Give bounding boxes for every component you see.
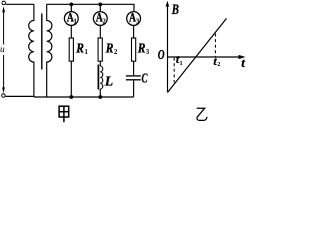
svg-text:2: 2 (102, 18, 106, 26)
wire capacitor to bottom bus (133, 80, 135, 97)
wire R2 to inductor (99, 62, 101, 66)
ammeter A1 (64, 4, 78, 25)
label jia (circuit) (59, 106, 69, 122)
resistor R1 (69, 38, 73, 61)
svg-text:3: 3 (136, 18, 140, 26)
svg-text:B: B (171, 2, 179, 18)
svg-text:1: 1 (85, 49, 89, 56)
dashed line t2 (214, 34, 216, 57)
B-t line (168, 18, 227, 92)
junction node bottom L (98, 95, 102, 99)
svg-text:1: 1 (73, 18, 77, 26)
wire A2 to R2 (99, 26, 101, 38)
svg-text:R: R (75, 40, 84, 55)
label yi (graph) (197, 108, 207, 120)
wire bottom from terminal to primary coil (6, 95, 34, 98)
wire A3 to R3 (133, 26, 135, 38)
wire top from terminal to primary coil (6, 3, 34, 5)
transformer secondary coil (47, 4, 52, 97)
inductor L coil (100, 66, 103, 89)
svg-text:C: C (142, 71, 149, 86)
bottom bus wire (34, 96, 134, 98)
ammeter A2 (93, 4, 107, 25)
wire R1 to bottom bus (70, 62, 72, 97)
terminal bottom-left (2, 94, 6, 98)
ammeter A3 (127, 10, 141, 26)
junction node bottom R1 (69, 95, 73, 99)
terminal top-left (2, 1, 5, 5)
B axis (167, 4, 169, 93)
svg-text:1: 1 (180, 60, 183, 67)
svg-text:3: 3 (146, 49, 150, 56)
svg-text:t: t (241, 55, 245, 70)
svg-text:R: R (105, 40, 114, 55)
AC source u double arrow (3, 12, 5, 90)
t axis (168, 56, 243, 58)
svg-text:O: O (158, 48, 165, 63)
junction node top A1 (69, 3, 73, 7)
svg-text:R: R (137, 40, 146, 55)
capacitor C plates (126, 75, 141, 77)
resistor R3 (132, 38, 136, 61)
wire inductor to bottom bus (99, 89, 101, 97)
transformer core (41, 14, 43, 70)
wire R3 to capacitor (133, 62, 135, 76)
transformer primary coil (29, 4, 34, 97)
svg-text:L: L (104, 73, 113, 88)
junction node top A2 (98, 3, 102, 7)
svg-text:2: 2 (217, 61, 220, 68)
svg-text:u: u (0, 45, 5, 55)
top bus wire (47, 4, 134, 11)
inductor L core bar (97, 65, 99, 90)
wire A1 to R1 (70, 26, 72, 38)
dashed line t1 (173, 58, 175, 83)
svg-text:2: 2 (114, 49, 118, 56)
resistor R2 (98, 38, 102, 61)
